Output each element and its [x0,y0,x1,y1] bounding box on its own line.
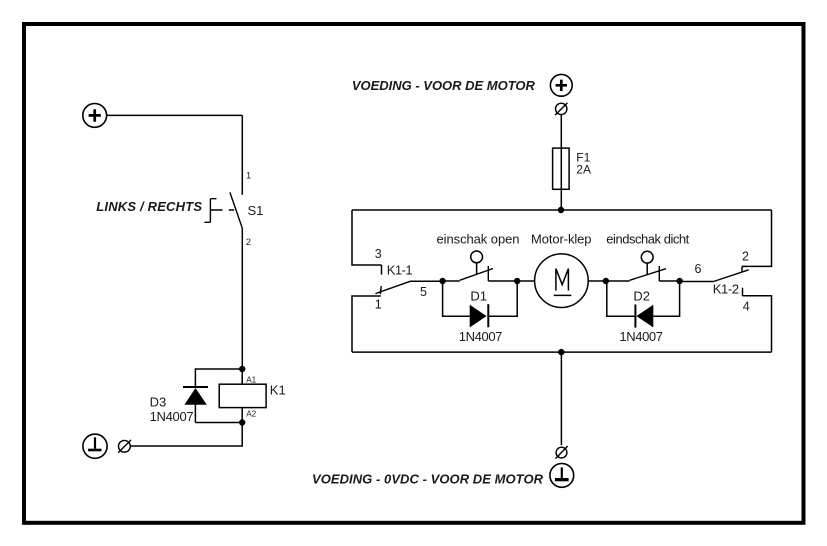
wire [411,280,443,282]
svg-text:1N4007: 1N4007 [459,329,503,344]
svg-text:D2: D2 [633,288,650,303]
box right edge lower wire [743,288,772,352]
wire [680,281,714,283]
node junction box bottom [558,349,564,355]
node junction left of motor [514,278,520,284]
diode D3 [183,387,208,423]
switch einschak open fixed contact [487,266,489,281]
switch einschak open actuator [471,251,483,274]
diode D1 loop wire [443,281,518,316]
svg-text:1N4007: 1N4007 [619,329,663,344]
svg-text:K1: K1 [270,382,286,397]
switch S1 actuator [204,199,234,223]
node junction 5 [439,278,445,284]
wire [560,352,562,445]
box top edge wire [352,209,772,211]
box right edge upper wire [742,210,772,272]
svg-text:1: 1 [246,170,251,180]
diode D2 [635,305,653,328]
svg-text:1: 1 [375,298,382,312]
svg-text:A2: A2 [246,409,256,418]
svg-text:K1-1: K1-1 [387,263,413,278]
box left edge lower wire [352,296,381,352]
wire [517,280,534,282]
motor M1 Motor-klep [535,254,589,308]
fuse F1 [553,148,570,189]
wire [195,422,242,424]
wire [606,280,630,282]
svg-text:D1: D1 [470,288,487,303]
svg-text:VOEDING - VOOR DE MOTOR: VOEDING - VOOR DE MOTOR [352,78,536,93]
box left edge upper wire [352,210,382,275]
relay coil K1 [219,384,266,407]
wire [560,189,562,210]
wire [130,423,242,447]
wire [488,280,517,282]
svg-text:S1: S1 [248,203,264,218]
contact K1-1 tick [380,286,381,294]
svg-text:4: 4 [743,299,750,313]
terminal circle (slashed) bottom-left [118,440,131,453]
terminal circle (slashed) top-right [555,103,567,115]
node junction box top [558,207,564,213]
svg-text:5: 5 [420,285,427,299]
svg-text:1N4007: 1N4007 [150,409,194,424]
svg-text:3: 3 [375,247,382,261]
node junction right of motor [603,278,609,284]
switch S1 blade [230,192,242,228]
wire [107,114,243,116]
wire [443,280,460,282]
wire [588,280,606,282]
node junction top of relay [239,366,245,372]
contact K1-1 blade [375,281,410,293]
wire [195,369,242,387]
switch einschak open blade [460,269,493,281]
svg-text:2: 2 [742,250,749,264]
terminal circle (slashed) bottom-right [556,446,568,459]
box bottom edge wire [352,351,772,353]
wire [241,369,243,423]
svg-text:2: 2 [246,237,251,247]
svg-text:K1-2: K1-2 [713,282,739,297]
node junction 6 [676,278,682,284]
svg-text:eindschak dicht: eindschak dicht [606,232,689,247]
switch eindschak dicht blade [630,269,666,281]
wire [241,115,243,194]
svg-text:A1: A1 [246,375,256,384]
ground symbol (left) [83,434,107,458]
diode D1 [470,304,489,327]
svg-text:2A: 2A [576,162,591,176]
diode D2 loop wire [607,281,680,316]
switch eindschak dicht actuator [641,251,653,274]
svg-text:LINKS / RECHTS: LINKS / RECHTS [96,199,202,214]
contact K1-2 blade [714,270,749,282]
wire [560,115,562,148]
svg-text:einschak open: einschak open [437,232,520,247]
svg-text:6: 6 [695,262,702,276]
supply terminal + (left) [83,104,107,128]
svg-text:D3: D3 [150,395,167,410]
switch eindschak dicht fixed contact [658,266,660,281]
supply terminal + (top right) [550,74,572,96]
svg-text:Motor-klep: Motor-klep [531,232,592,247]
ground symbol (right) [550,464,574,488]
svg-text:VOEDING - 0VDC - VOOR DE MOTOR: VOEDING - 0VDC - VOOR DE MOTOR [312,471,544,486]
wire [241,228,243,369]
node junction bottom of relay [239,419,245,425]
wire [659,280,679,282]
